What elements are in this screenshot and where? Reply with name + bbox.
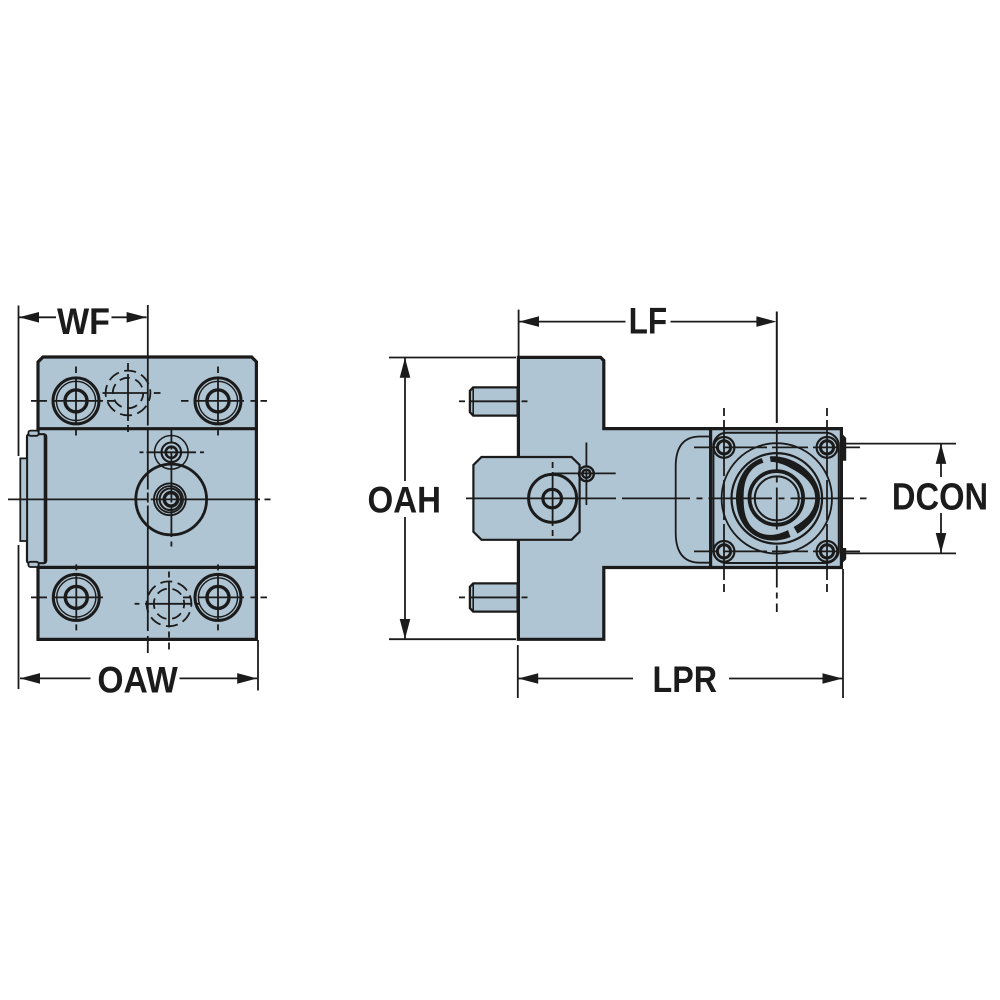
polygon coupling band segment B (770, 456, 820, 533)
left tab: top bump (28, 431, 38, 436)
right side step top (841, 432, 847, 461)
svg-text:LF: LF (629, 300, 668, 341)
coupling vertical centerline (776, 312, 778, 424)
flange bolt horizontal centerlines (694, 446, 860, 448)
bottom section line (38, 566, 256, 569)
coupling boss circle (722, 443, 832, 553)
flange bolt vertical centerlines (723, 408, 725, 592)
LPR dimension (518, 569, 843, 698)
vertical centerline through center feature (170, 430, 172, 547)
right side step bottom (841, 548, 847, 565)
bolt bottom-left (53, 564, 99, 630)
OAH dimension (389, 358, 516, 640)
small center feature (upper) (140, 436, 205, 470)
vertical centerline (WF datum) (147, 305, 149, 653)
knob small circle (553, 443, 616, 506)
polygon coupling band segment A (736, 458, 791, 540)
flange left edge (709, 429, 712, 568)
WF dimension (19, 306, 147, 690)
bottom bolt row centerline (31, 596, 267, 598)
plate big circle (529, 474, 577, 522)
flange inner rounded square (713, 433, 838, 563)
clamp plate (rounded square) (473, 457, 579, 540)
left tab: bottom bump (28, 562, 38, 567)
top stud (459, 387, 528, 415)
bolt top-right (195, 367, 241, 436)
left tab: left step plate (20, 458, 27, 541)
left tab: main bar (27, 434, 46, 563)
flange bolt top-right (817, 437, 838, 458)
big center boss circle (136, 464, 207, 535)
coupling mid circle (732, 453, 823, 544)
svg-text:OAW: OAW (97, 660, 177, 701)
flange bolt bottom-left (714, 541, 735, 562)
boss capsule behind flange (676, 437, 710, 563)
OAW dimension (20, 640, 258, 691)
phantom dashed circle top (103, 363, 161, 432)
top section line (38, 427, 256, 430)
main block body (38, 357, 256, 639)
bolt top-left (53, 367, 99, 436)
center rings cluster (154, 483, 186, 515)
LF dimension (519, 310, 757, 356)
body outline (slab + arm + flange) (518, 357, 841, 639)
svg-text:OAH: OAH (368, 480, 442, 521)
DCON dimension (846, 444, 956, 554)
flange bolt bottom-right (817, 541, 838, 562)
flange bolt top-left (714, 437, 735, 458)
horizontal main centerline left view (8, 498, 271, 500)
tab right edge emphasis (44, 435, 46, 563)
coupling bore ring (750, 471, 804, 525)
svg-text:DCON: DCON (892, 477, 988, 519)
bolt bottom-right (195, 564, 241, 630)
svg-text:WF: WF (57, 301, 110, 342)
plate inner circle (543, 489, 562, 508)
svg-text:LPR: LPR (653, 659, 718, 700)
top bolt row centerline (31, 400, 267, 402)
plate vertical centerline (552, 462, 554, 536)
coupling taper inner circle (755, 476, 799, 520)
main horizontal centerline right view (466, 497, 867, 499)
bottom stud (459, 583, 528, 611)
phantom dashed circle bottom (135, 572, 200, 650)
